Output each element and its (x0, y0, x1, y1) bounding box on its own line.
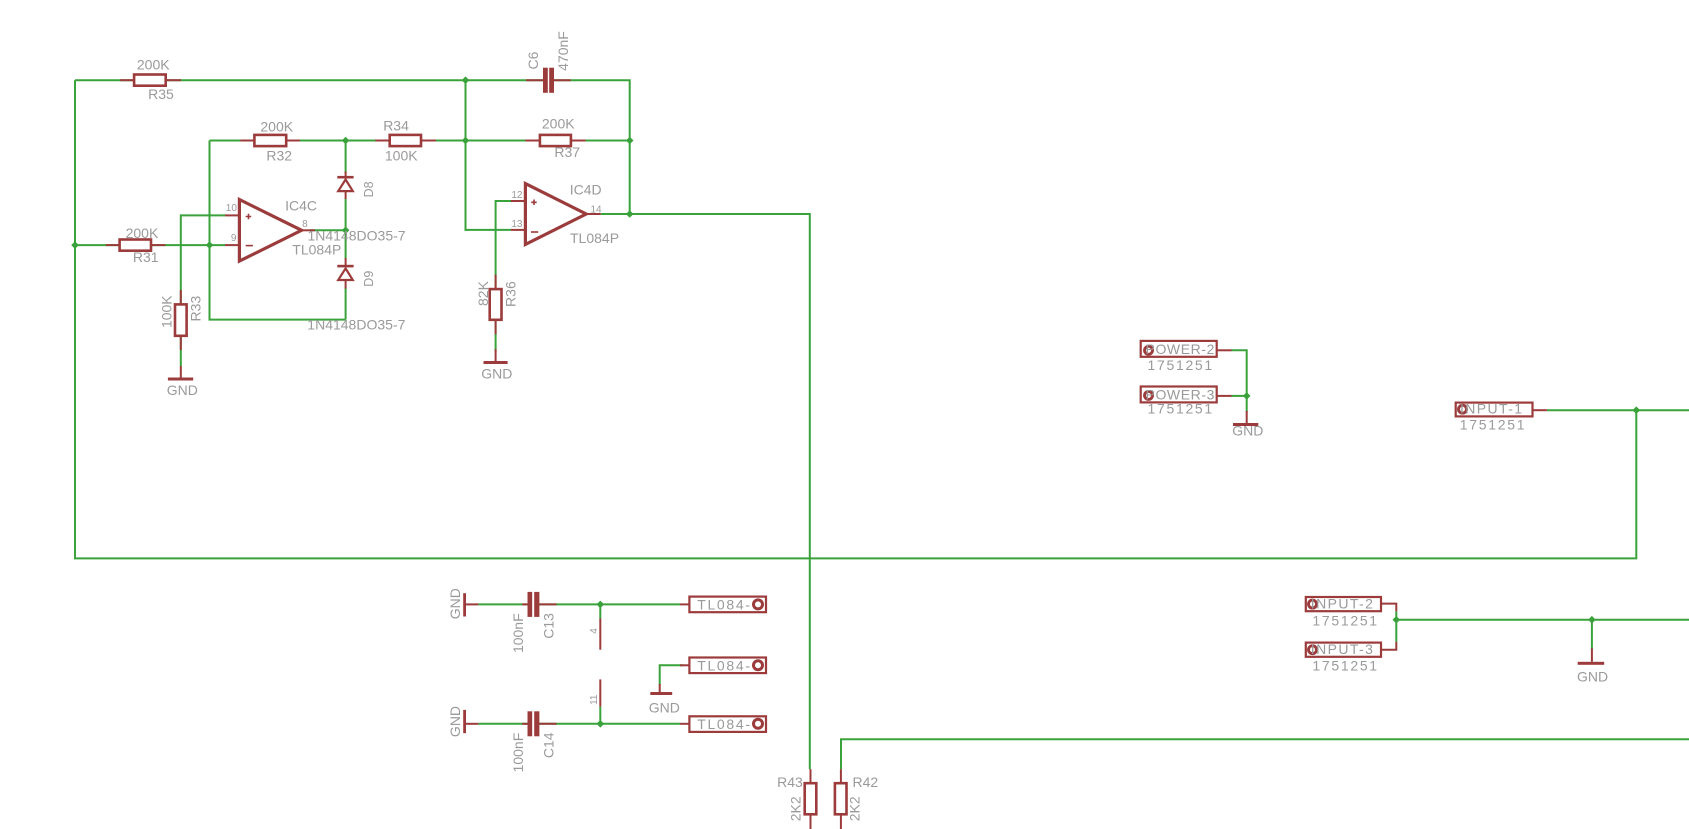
svg-text:D9: D9 (362, 271, 376, 287)
svg-text:IC4C: IC4C (285, 198, 317, 214)
svg-text:GND: GND (447, 706, 463, 737)
svg-text:R31: R31 (133, 249, 159, 265)
svg-text:82K: 82K (475, 280, 491, 306)
svg-text:14: 14 (591, 205, 603, 216)
svg-text:1751251: 1751251 (1148, 401, 1214, 417)
svg-text:1751251: 1751251 (1460, 417, 1526, 433)
svg-text:4: 4 (589, 628, 600, 634)
svg-text:C14: C14 (540, 732, 556, 758)
svg-text:TL084P: TL084P (292, 242, 341, 258)
svg-text:GND: GND (481, 366, 512, 382)
svg-text:GND: GND (167, 382, 198, 398)
svg-text:R35: R35 (148, 86, 174, 102)
svg-text:1751251: 1751251 (1312, 613, 1378, 629)
svg-text:R37: R37 (554, 144, 580, 160)
svg-text:100K: 100K (385, 148, 418, 164)
svg-text:200K: 200K (542, 116, 575, 132)
svg-text:1751251: 1751251 (1148, 357, 1214, 373)
svg-text:C13: C13 (540, 613, 556, 639)
svg-text:1751251: 1751251 (1312, 658, 1378, 674)
svg-text:GND: GND (447, 588, 463, 619)
svg-text:D8: D8 (362, 181, 376, 197)
svg-text:100nF: 100nF (510, 613, 526, 653)
svg-text:R36: R36 (503, 281, 519, 307)
svg-text:470nF: 470nF (555, 31, 571, 71)
svg-text:R43: R43 (777, 774, 803, 790)
svg-text:8: 8 (302, 219, 308, 230)
svg-text:R33: R33 (187, 296, 203, 322)
svg-text:TL084P: TL084P (570, 230, 619, 246)
svg-text:TL084-: TL084- (697, 716, 752, 732)
svg-text:11: 11 (589, 694, 600, 705)
svg-text:TL084-: TL084- (697, 597, 752, 613)
svg-text:9: 9 (231, 233, 237, 244)
svg-text:R34: R34 (383, 118, 409, 134)
svg-text:GND: GND (1232, 423, 1263, 439)
svg-text:1N4148DO35-7: 1N4148DO35-7 (307, 317, 405, 333)
svg-text:C6: C6 (525, 51, 541, 69)
svg-text:POWER-2: POWER-2 (1146, 341, 1216, 357)
svg-text:200K: 200K (137, 57, 170, 73)
svg-text:R42: R42 (853, 774, 879, 790)
svg-text:2K2: 2K2 (787, 796, 803, 821)
svg-text:200K: 200K (126, 225, 159, 241)
svg-text:INPUT-1: INPUT-1 (1460, 401, 1523, 417)
svg-text:200K: 200K (260, 119, 293, 135)
svg-text:INPUT-2: INPUT-2 (1311, 596, 1374, 612)
svg-text:R32: R32 (266, 148, 292, 164)
svg-text:1N4148DO35-7: 1N4148DO35-7 (308, 227, 406, 243)
svg-text:100K: 100K (159, 295, 175, 328)
svg-text:100nF: 100nF (510, 733, 526, 773)
svg-text:GND: GND (649, 700, 680, 716)
svg-text:TL084-: TL084- (697, 657, 752, 673)
svg-text:10: 10 (226, 203, 238, 214)
svg-text:GND: GND (1577, 669, 1608, 685)
svg-text:INPUT-3: INPUT-3 (1311, 641, 1374, 657)
svg-text:IC4D: IC4D (570, 182, 602, 198)
svg-text:2K2: 2K2 (847, 796, 863, 821)
svg-text:13: 13 (511, 219, 523, 230)
svg-text:12: 12 (511, 190, 523, 201)
